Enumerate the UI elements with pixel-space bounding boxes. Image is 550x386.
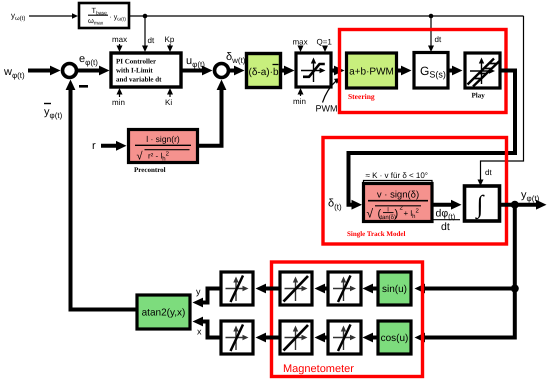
- wire r into precontrol: [101, 144, 118, 148]
- wire Q=1 arrow into saturation top: [324, 47, 326, 50]
- svg-text:l · sign(r): l · sign(r): [146, 134, 180, 144]
- node junction y_phi(t): [511, 201, 519, 209]
- wire C to B: [322, 287, 328, 291]
- block cos(u): [378, 321, 411, 354]
- wire Play output feedback to single track model: [349, 71, 516, 205]
- wire a+b*PWM to G_S: [397, 69, 403, 73]
- svg-text:r: r: [92, 140, 96, 152]
- wire PI to sum S2: [181, 69, 204, 73]
- node junction dt to G_S: [429, 14, 434, 19]
- svg-text:): ): [395, 208, 399, 220]
- wire PWM leader arrow: [323, 81, 337, 103]
- svg-text:PWM: PWM: [316, 104, 338, 114]
- svg-text:max: max: [112, 35, 127, 44]
- block scale B: [280, 272, 312, 305]
- wire dt down to integrator: [481, 16, 524, 181]
- block scale D: [221, 321, 253, 354]
- wire into sin(u): [424, 287, 515, 291]
- block PI controller: [111, 53, 181, 87]
- sum junction S2: [215, 64, 229, 78]
- wire precontrol output up into sum S2: [198, 84, 222, 146]
- wire B to A: [264, 287, 280, 291]
- block G_S(s): [414, 53, 448, 89]
- sum junction S1: [63, 64, 77, 78]
- wire min arrow into PI bottom: [119, 93, 121, 97]
- wire atan2 output feedback up to sum S1: [71, 84, 138, 310]
- block (delta-a)*b gain: [247, 54, 281, 88]
- wire bracket over STM block: [364, 181, 433, 185]
- wire w input into sum junction: [28, 69, 52, 73]
- node junction dt to PI: [143, 14, 148, 19]
- block Play backlash: [465, 53, 500, 88]
- svg-text:v · sign(δ): v · sign(δ): [377, 190, 419, 201]
- svg-text:Kp: Kp: [165, 35, 175, 44]
- wire A to atan2 y input: [200, 289, 221, 303]
- block single track model gain: [364, 184, 433, 222]
- svg-text:and variable dt: and variable dt: [116, 76, 162, 84]
- svg-text:dt: dt: [148, 36, 155, 45]
- svg-text:√: √: [367, 207, 374, 221]
- wire dt down to G_S block: [430, 16, 432, 47]
- wire STM to integrator: [432, 203, 453, 207]
- svg-text:min: min: [112, 98, 125, 107]
- svg-text:√: √: [137, 151, 144, 163]
- svg-text:(δ-a)·b: (δ-a)·b: [249, 67, 279, 78]
- wire (d-a)b to saturation: [281, 69, 286, 73]
- node Steering region box: [340, 30, 507, 113]
- svg-text:dt: dt: [485, 168, 492, 177]
- svg-text:Magnetometer: Magnetometer: [283, 363, 354, 375]
- block saturation PWM: [296, 53, 331, 87]
- wire sum S1 to PI controller: [78, 69, 101, 73]
- svg-text:Single Track Model: Single Track Model: [347, 230, 406, 238]
- block T_base/w_max gain: [79, 3, 129, 28]
- svg-text:sin(u): sin(u): [382, 284, 407, 295]
- block integrator: [465, 186, 500, 221]
- svg-text:≈ K · v für δ < 10°: ≈ K · v für δ < 10°: [366, 171, 429, 180]
- svg-text:y: y: [196, 287, 201, 297]
- svg-text:a+b·PWM: a+b·PWM: [349, 67, 394, 78]
- wire y_phi feedback down to magnetometer: [424, 205, 515, 338]
- svg-text:dt: dt: [435, 35, 442, 44]
- block a+b*PWM: [347, 53, 397, 88]
- wire G_S to Play: [448, 69, 454, 73]
- wire integrator output y_phi(t): [500, 203, 538, 207]
- wire saturation to a+b*PWM: [331, 69, 336, 73]
- wire min arrow into saturation bottom: [300, 93, 302, 96]
- wire cos to scale F: [372, 336, 378, 340]
- node minus sign for feedback: [79, 85, 88, 88]
- svg-text:Ki: Ki: [165, 98, 172, 107]
- wire sum S2 to (d-a)b block: [230, 69, 236, 73]
- block scale F: [328, 321, 361, 354]
- wire Kp arrow into PI top: [169, 44, 171, 47]
- node junction sin feed: [511, 285, 519, 293]
- wire max arrow into PI top: [119, 44, 121, 47]
- wire T_base output across top: [129, 15, 524, 17]
- wire y_w(t) into T_base block: [29, 15, 73, 17]
- block precontrol: [129, 130, 198, 163]
- wire max arrow into saturation top: [300, 47, 302, 50]
- svg-text:x: x: [197, 327, 202, 337]
- wire F to E: [322, 336, 328, 340]
- block sin(u): [378, 272, 411, 305]
- svg-text:Precontrol: Precontrol: [134, 166, 166, 174]
- svg-text:max: max: [293, 38, 308, 47]
- svg-text:atan2(y,x): atan2(y,x): [142, 308, 186, 319]
- wire dt down to PI controller: [144, 16, 146, 47]
- svg-text:PI Controller: PI Controller: [116, 58, 156, 66]
- block scale C: [328, 272, 361, 305]
- svg-text:cos(u): cos(u): [381, 333, 409, 344]
- wire Ki arrow into PI bottom: [169, 93, 171, 97]
- svg-text:Steering: Steering: [348, 92, 375, 101]
- svg-text:Q=1: Q=1: [317, 38, 333, 47]
- wire D to atan2 x input: [200, 322, 221, 338]
- block atan2: [137, 295, 190, 329]
- svg-text:Play: Play: [472, 92, 486, 100]
- node Magnetometer region box: [272, 262, 423, 377]
- wire sin to scale C: [372, 287, 378, 291]
- node Single Track Model region box: [323, 138, 507, 245]
- svg-text:dt: dt: [441, 221, 450, 233]
- svg-text:with I-Limit: with I-Limit: [116, 67, 153, 75]
- block scale A: [221, 272, 253, 305]
- block scale E: [280, 321, 312, 354]
- svg-text:min: min: [293, 97, 306, 106]
- wire E to D: [264, 336, 280, 340]
